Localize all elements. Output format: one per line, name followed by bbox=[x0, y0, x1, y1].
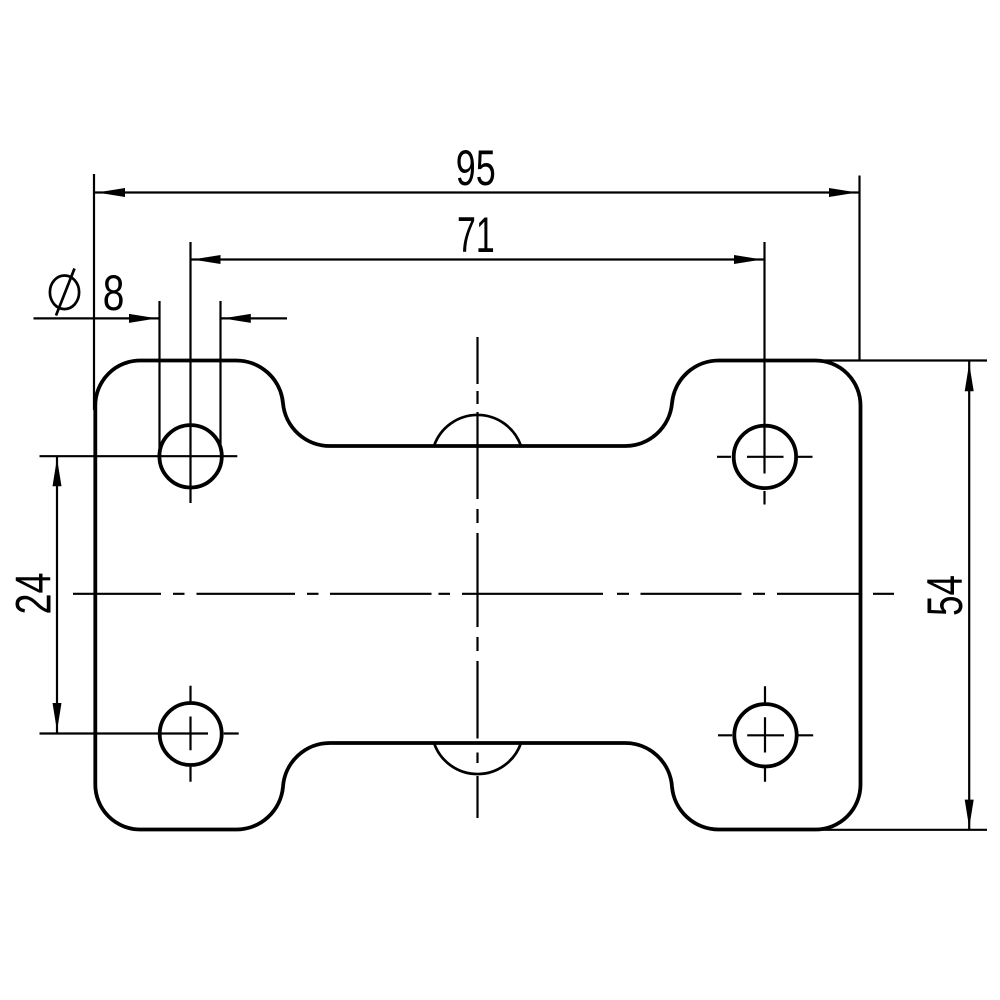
arrow 71 right bbox=[734, 255, 762, 264]
crosshair top-left hole vertical / 71 extension line left bbox=[189, 242, 191, 503]
extension line top y=360.5 for 54 dim bbox=[818, 359, 987, 361]
svg-text:95: 95 bbox=[456, 139, 496, 196]
crosshair bottom-right hole horizontal bbox=[718, 734, 813, 736]
dimension line 95 bbox=[95, 191, 860, 193]
crosshair bottom-left hole horizontal / 24 extension line bottom bbox=[40, 732, 239, 734]
arrow 24 top bbox=[53, 458, 62, 486]
top center hump arc bbox=[434, 415, 521, 446]
hole top-left bbox=[159, 425, 221, 487]
arrow dia8 right (points left) bbox=[223, 314, 251, 323]
extension line x=159.5 for dia 8 dim bbox=[158, 301, 160, 454]
crosshair bottom-right hole vertical bbox=[764, 686, 766, 782]
extension line bottom y=829.5 for 54 dim bbox=[818, 829, 987, 831]
arrow 95 left bbox=[97, 188, 125, 197]
svg-text:71: 71 bbox=[457, 206, 495, 263]
diameter symbol bbox=[50, 269, 79, 316]
arrow dia8 left (points right) bbox=[129, 314, 157, 323]
crosshair bottom-left hole vertical bbox=[189, 686, 191, 782]
extension line right x=859.5 for 95 dim bbox=[858, 176, 860, 361]
dimension line dia8 right tail bbox=[221, 317, 288, 319]
arrow 54 bottom bbox=[965, 800, 974, 828]
dimension line 71 bbox=[191, 258, 765, 260]
dimension line 54 bbox=[968, 362, 970, 830]
arrow 24 bottom bbox=[53, 703, 62, 731]
hole top-right bbox=[734, 426, 796, 488]
horizontal centerline bbox=[73, 593, 894, 595]
svg-text:8: 8 bbox=[103, 264, 125, 321]
svg-text:54: 54 bbox=[916, 575, 973, 616]
extension line x=220.5 for dia 8 dim bbox=[219, 301, 221, 451]
crosshair top-left hole horizontal / 24 extension line top bbox=[40, 455, 238, 457]
hole bottom-left bbox=[160, 703, 222, 765]
arrow 95 right bbox=[829, 188, 857, 197]
crosshair top-right hole horizontal bbox=[717, 456, 813, 458]
arrow 71 left bbox=[193, 255, 221, 264]
dimension line dia8 left tail bbox=[34, 317, 160, 319]
plate outline bbox=[95, 360, 860, 829]
vertical centerline bbox=[476, 337, 478, 818]
crosshair top-right hole vertical / 71 extension line right bbox=[763, 242, 765, 505]
bottom center hump arc bbox=[434, 743, 521, 774]
dimension line 24 bbox=[56, 457, 58, 733]
hole bottom-right bbox=[734, 704, 796, 766]
extension line left x=94 for 95 dim bbox=[93, 174, 95, 410]
arrow 54 top bbox=[965, 363, 974, 391]
svg-text:24: 24 bbox=[4, 573, 61, 615]
